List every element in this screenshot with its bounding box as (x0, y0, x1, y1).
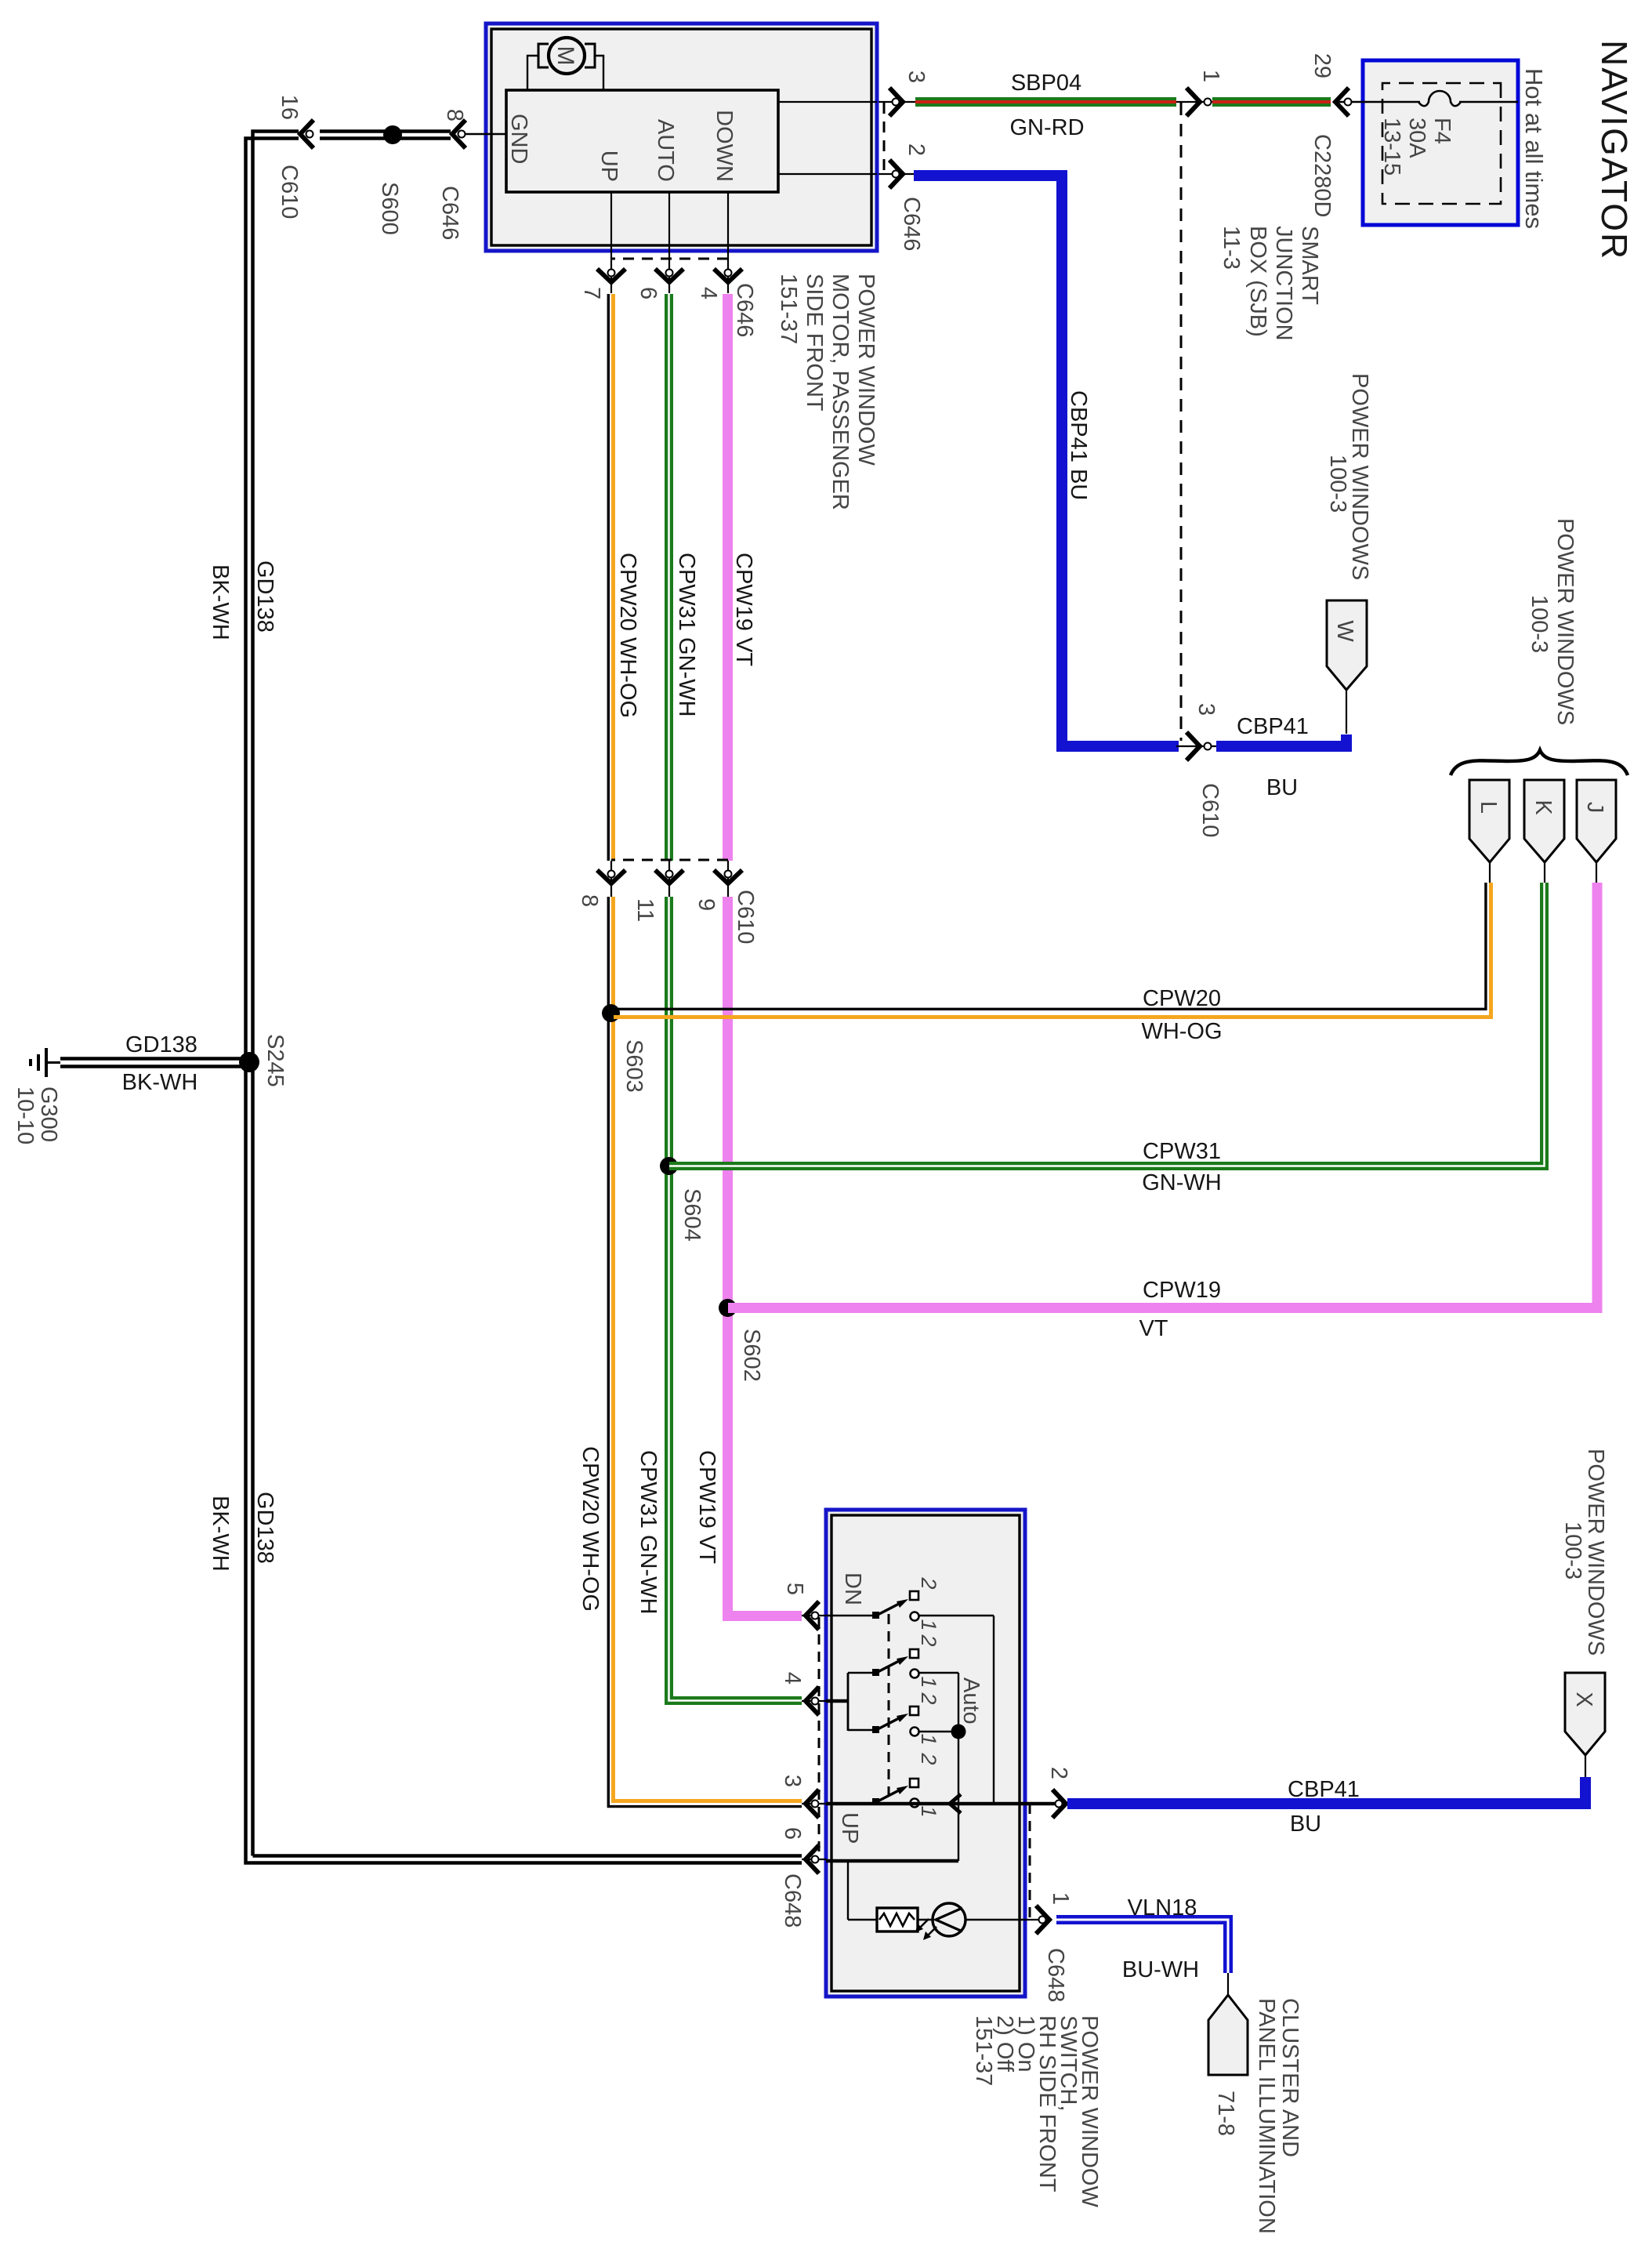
svg-text:VLN18: VLN18 (1128, 1895, 1197, 1920)
connector C648 arrow pin 4 (780, 1672, 826, 1715)
connector K (1524, 780, 1564, 883)
component label power window switch (971, 2015, 1102, 2207)
lamp branch wire (848, 1861, 1025, 1920)
wire motor AUTO pin lead (668, 192, 670, 252)
svg-text:11: 11 (632, 898, 658, 922)
splice S603 (602, 1004, 647, 1093)
svg-text:1: 1 (917, 1733, 940, 1745)
smart junction box SJB (1363, 60, 1518, 225)
svg-text:3: 3 (780, 1775, 805, 1787)
destination label power windows 100-3 (J K L) (1527, 518, 1578, 725)
svg-text:BK-WH: BK-WH (208, 564, 233, 640)
svg-text:BU: BU (1290, 1812, 1321, 1837)
dashed connector line C646 motor top (883, 103, 886, 171)
connector C648 arrow pin 1 (1025, 1892, 1073, 2002)
connector C648 arrow pin 6 (780, 1827, 826, 1928)
connector X (1565, 1673, 1605, 1777)
ground G300 (13, 1048, 61, 1144)
dashed connector line C646 motor right (611, 258, 728, 260)
svg-text:C646: C646 (437, 186, 462, 240)
svg-text:C646: C646 (732, 283, 757, 337)
wire CPW19 VT from connector J (728, 883, 1597, 1341)
svg-text:C610: C610 (733, 890, 758, 944)
wire CPW31 GN-WH motor run (669, 294, 802, 1701)
wire CPW20 WH-OG run label lower (578, 1446, 603, 1612)
svg-text:CPW31: CPW31 (1143, 1139, 1221, 1164)
connector C646 arrow pin 6 (636, 252, 683, 299)
svg-text:POWER WINDOWS: POWER WINDOWS (1583, 1449, 1608, 1656)
motor M symbol (527, 38, 603, 90)
svg-text:S245: S245 (263, 1034, 288, 1087)
svg-text:1: 1 (1198, 70, 1223, 82)
svg-text:K: K (1531, 800, 1556, 815)
dashed connector line C610 wires (611, 859, 728, 861)
svg-text:7: 7 (579, 287, 604, 299)
svg-text:13-15: 13-15 (1379, 118, 1404, 176)
svg-text:151-37: 151-37 (971, 2015, 996, 2086)
svg-text:11-3: 11-3 (1219, 226, 1244, 270)
connector C646 arrow pin 4 (696, 252, 757, 337)
svg-text:CPW19 VT: CPW19 VT (694, 1450, 719, 1564)
connector C610 arrow pin 1 (1176, 70, 1223, 116)
splice S245 (239, 1034, 288, 1087)
svg-text:CPW19 VT: CPW19 VT (731, 553, 756, 666)
wire UP rail pin 3 to pin 2 (826, 1794, 1066, 1813)
dashed connector line C610 (1180, 103, 1183, 746)
svg-text:GD138: GD138 (252, 560, 277, 633)
wire motor UP pin lead (610, 192, 612, 252)
svg-text:S600: S600 (377, 182, 402, 235)
svg-text:PANEL ILLUMINATION: PANEL ILLUMINATION (1254, 1998, 1279, 2234)
svg-text:9: 9 (694, 898, 719, 911)
svg-text:WH-OG: WH-OG (1141, 1019, 1222, 1044)
svg-text:POWER WINDOW: POWER WINDOW (853, 274, 879, 466)
connector L (1469, 780, 1509, 883)
svg-text:1: 1 (917, 1805, 940, 1817)
wire auto contacts collector to ground rail (918, 1673, 966, 1861)
svg-text:GD138: GD138 (125, 1032, 197, 1057)
connector 71-8 pentagon (1208, 1995, 1248, 2136)
wire motor pin2 feed inside box (778, 173, 877, 175)
resistor (877, 1908, 918, 1931)
svg-text:POWER WINDOWS: POWER WINDOWS (1347, 373, 1372, 580)
wire CPW31 GN-WH from connector K (669, 883, 1545, 1195)
title NAVIGATOR (1594, 40, 1635, 260)
wire GD138 BK-WH ground branch (60, 1032, 244, 1095)
svg-text:CPW31 GN-WH: CPW31 GN-WH (674, 553, 699, 716)
svg-text:5: 5 (782, 1583, 807, 1595)
wire CPW20 WH-OG from connector L (609, 883, 1491, 1044)
svg-text:BOX (SJB): BOX (SJB) (1245, 226, 1270, 337)
wire motor DOWN pin lead (727, 192, 729, 252)
wire GD138 BK-WH double segment upper (320, 132, 451, 139)
connector C610 arrow pin 3 (blue wire) (1176, 703, 1223, 837)
splice S602 (719, 1299, 764, 1382)
svg-text:F4: F4 (1429, 118, 1455, 144)
svg-text:GN-WH: GN-WH (1142, 1170, 1221, 1195)
wire CPW31 GN-WH run label lower (636, 1450, 661, 1614)
fuse F4 30A 13-15 (1363, 91, 1518, 176)
dashed connector line C648 bottom (818, 1617, 821, 1859)
svg-text:6: 6 (780, 1827, 805, 1840)
power window motor passenger side front box (486, 24, 877, 251)
svg-text:100-3: 100-3 (1527, 595, 1552, 653)
svg-text:L: L (1476, 801, 1501, 814)
wire auto fork to pin 4 (826, 1673, 875, 1731)
wire CBP41 BU from W to motor pin 2 (914, 176, 1346, 800)
svg-text:CPW20: CPW20 (1143, 986, 1221, 1011)
svg-text:2: 2 (917, 1752, 940, 1764)
svg-text:10-10: 10-10 (13, 1086, 38, 1144)
svg-text:1: 1 (917, 1676, 940, 1688)
wire CPW19 VT run label lower (694, 1450, 719, 1564)
connector C646 arrow pin 8 (437, 109, 467, 240)
svg-text:6: 6 (636, 287, 661, 299)
svg-text:C646: C646 (899, 197, 924, 251)
svg-text:SBP04: SBP04 (1011, 71, 1081, 96)
wire GND inner box lead (466, 133, 506, 135)
svg-text:8: 8 (442, 109, 467, 121)
svg-text:W: W (1332, 620, 1357, 642)
wire fuse output stub (1335, 101, 1363, 103)
wire SBP04 GN-RD lower segment (915, 71, 1176, 140)
svg-text:M: M (552, 46, 578, 66)
connector C610 arrow pin 8 (577, 870, 625, 907)
dashed mechanical link (888, 1614, 890, 1804)
svg-text:BK-WH: BK-WH (122, 1070, 198, 1095)
svg-text:100-3: 100-3 (1325, 455, 1350, 513)
destination label power windows 100-3 (W) (1325, 373, 1372, 580)
svg-text:AUTO: AUTO (653, 119, 678, 182)
svg-text:C648: C648 (780, 1873, 805, 1928)
svg-text:DOWN: DOWN (712, 110, 737, 182)
svg-text:2: 2 (1046, 1767, 1071, 1779)
wire CPW19 VT motor run (728, 294, 802, 1616)
svg-text:GD138: GD138 (252, 1492, 277, 1564)
connector J (1577, 780, 1616, 883)
wire DN pivot to pin 5 (826, 1615, 875, 1616)
svg-text:GND: GND (506, 114, 531, 164)
svg-text:3: 3 (904, 71, 929, 83)
svg-text:MOTOR, PASSENGER: MOTOR, PASSENGER (828, 274, 853, 510)
svg-text:CLUSTER AND: CLUSTER AND (1277, 1998, 1302, 2157)
svg-text:30A: 30A (1404, 118, 1429, 158)
svg-text:3: 3 (1194, 703, 1219, 716)
svg-text:CPW20 WH-OG: CPW20 WH-OG (578, 1446, 603, 1612)
svg-text:UP: UP (837, 1812, 862, 1844)
svg-text:BU: BU (1266, 775, 1298, 800)
switch auto-up contact set (872, 1677, 984, 1746)
svg-text:C610: C610 (277, 165, 302, 219)
svg-text:POWER WINDOWS: POWER WINDOWS (1552, 518, 1578, 725)
svg-text:GN-RD: GN-RD (1009, 115, 1084, 140)
svg-text:CPW19: CPW19 (1143, 1278, 1221, 1303)
svg-text:BU-WH: BU-WH (1122, 1957, 1199, 1982)
svg-text:4: 4 (696, 287, 721, 299)
svg-text:CPW20 WH-OG: CPW20 WH-OG (615, 553, 640, 718)
destination label cluster and panel illumination (1254, 1998, 1302, 2234)
wire motor pin3 feed inside box (778, 101, 877, 103)
wire SBP04 GN-RD upper segment (1212, 97, 1331, 107)
svg-text:C610: C610 (1197, 783, 1223, 837)
wire CBP41 BU from X to switch pin 2 (1067, 1777, 1585, 1837)
svg-text:2: 2 (904, 143, 929, 156)
connector C610 arrow pin 16 (277, 95, 313, 219)
svg-text:100-3: 100-3 (1560, 1521, 1585, 1579)
wire DN contact1 collector to UP rail (918, 1616, 994, 1804)
connector C648 arrow pin 2 (1046, 1767, 1071, 1818)
switch UP contact set (837, 1752, 940, 1844)
illumination lamp (915, 1903, 965, 1940)
svg-text:Auto: Auto (958, 1677, 984, 1725)
svg-text:CBP41 BU: CBP41 BU (1066, 390, 1091, 500)
svg-text:BK-WH: BK-WH (208, 1496, 233, 1572)
svg-text:CBP41: CBP41 (1288, 1777, 1360, 1802)
component label smart junction box (1219, 226, 1322, 341)
wire GD138 BK-WH long run (208, 132, 802, 1863)
svg-text:C648: C648 (1043, 1948, 1068, 2002)
svg-text:2: 2 (917, 1576, 940, 1589)
svg-text:NAVIGATOR: NAVIGATOR (1594, 40, 1635, 260)
wire VLN18 BU-WH (1056, 1895, 1228, 1995)
svg-text:S603: S603 (621, 1039, 647, 1093)
svg-text:151-37: 151-37 (776, 274, 801, 344)
connector C648 arrow pin 3 (780, 1775, 826, 1818)
svg-text:X: X (1571, 1692, 1596, 1706)
svg-text:JUNCTION: JUNCTION (1271, 226, 1296, 341)
connector C646 arrow pin 7 (579, 252, 625, 299)
ground rail in switch (826, 1859, 958, 1863)
connector W (1327, 600, 1367, 734)
svg-text:29: 29 (1310, 53, 1335, 78)
svg-text:16: 16 (277, 95, 302, 120)
destination label power windows 100-3 (X) (1560, 1449, 1608, 1656)
brace for connectors J K L (1451, 750, 1628, 775)
splice S604 (660, 1157, 705, 1242)
svg-text:CPW31 GN-WH: CPW31 GN-WH (636, 1450, 661, 1614)
svg-text:Hot at all times: Hot at all times (1520, 68, 1548, 229)
svg-text:J: J (1582, 802, 1607, 814)
connector C2280D arrow pin 29 (1310, 53, 1352, 218)
wire CPW20 WH-OG motor run (608, 294, 802, 1807)
svg-text:UP: UP (596, 151, 621, 182)
svg-text:71-8: 71-8 (1213, 2091, 1238, 2136)
svg-text:1: 1 (1048, 1892, 1073, 1905)
connector C610 arrow pin 11 (632, 870, 683, 922)
svg-text:2: 2 (917, 1634, 940, 1646)
svg-text:S602: S602 (739, 1329, 764, 1382)
splice S600 (377, 125, 402, 235)
svg-text:SIDE FRONT: SIDE FRONT (802, 274, 827, 412)
switch auto-down contact set (872, 1634, 940, 1688)
connector C648 arrow pin 5 (782, 1583, 826, 1630)
label Hot at all times (1520, 68, 1548, 229)
svg-text:4: 4 (780, 1672, 805, 1685)
dashed connector line C648 top (1029, 1804, 1031, 1920)
svg-text:S604: S604 (679, 1188, 705, 1242)
svg-text:2: 2 (917, 1692, 940, 1704)
svg-text:SMART: SMART (1297, 226, 1322, 305)
svg-text:G300: G300 (36, 1086, 61, 1142)
component label power window motor (776, 274, 879, 510)
svg-text:8: 8 (577, 894, 602, 907)
power window switch box (826, 1510, 1025, 1997)
svg-text:1: 1 (917, 1619, 940, 1630)
svg-text:VT: VT (1139, 1316, 1168, 1341)
svg-text:CBP41: CBP41 (1237, 714, 1309, 739)
connector C646 arrow pin 2 (motor) (877, 143, 929, 251)
svg-text:C2280D: C2280D (1310, 134, 1335, 217)
connector C646 arrow pin 3 (motor B+) (877, 71, 929, 116)
connector C610 arrow pin 9 (694, 870, 758, 944)
motor control module inner box (506, 90, 778, 192)
switch DN contact set (840, 1572, 940, 1631)
svg-text:DN: DN (840, 1572, 865, 1605)
